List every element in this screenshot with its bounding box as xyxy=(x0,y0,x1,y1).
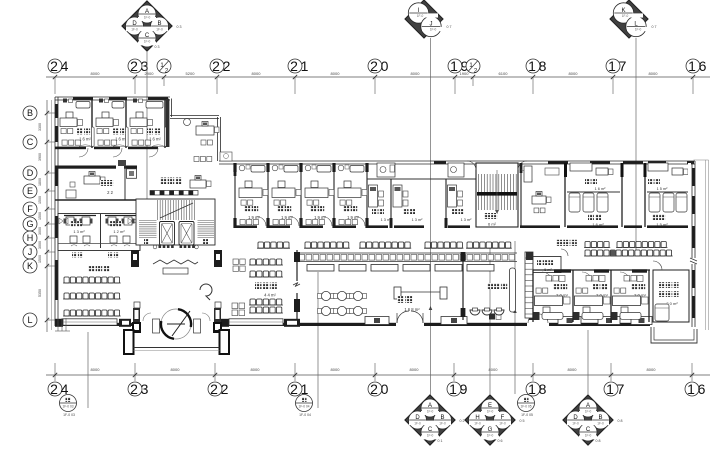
svg-text:1F-0: 1F-0 xyxy=(474,421,481,425)
svg-text:5350: 5350 xyxy=(38,289,42,297)
svg-text:8000: 8000 xyxy=(647,367,657,372)
svg-text:1F-0 04: 1F-0 04 xyxy=(299,413,311,417)
svg-text:3: 3 xyxy=(141,381,149,397)
svg-text:8000: 8000 xyxy=(171,367,181,372)
svg-text:2: 2 xyxy=(130,381,138,397)
svg-text:L: L xyxy=(27,315,32,325)
svg-text:1500: 1500 xyxy=(38,255,42,263)
svg-text:A: A xyxy=(145,9,149,15)
svg-text:1 2 m²: 1 2 m² xyxy=(113,229,125,234)
svg-text:1 6 m²: 1 6 m² xyxy=(149,137,161,142)
svg-text:2: 2 xyxy=(130,58,138,74)
svg-text:4: 4 xyxy=(61,58,69,74)
svg-text:1: 1 xyxy=(450,58,458,74)
svg-text:3900: 3900 xyxy=(38,153,42,161)
svg-text:8000: 8000 xyxy=(331,367,341,372)
svg-text:8000: 8000 xyxy=(649,71,659,76)
svg-text:0: 0 xyxy=(381,58,389,74)
svg-text:1F-0 03: 1F-0 03 xyxy=(63,413,75,417)
svg-text:G: G xyxy=(26,219,33,229)
svg-text:1800: 1800 xyxy=(38,178,42,186)
svg-text:2: 2 xyxy=(370,381,378,397)
svg-text:8000: 8000 xyxy=(252,71,262,76)
svg-text:G: G xyxy=(488,427,493,433)
svg-text:1: 1 xyxy=(449,381,457,397)
svg-text:0 1: 0 1 xyxy=(438,439,443,443)
svg-text:1 5 m²: 1 5 m² xyxy=(657,187,668,191)
svg-text:1F-0 05: 1F-0 05 xyxy=(521,413,533,417)
svg-text:0 5: 0 5 xyxy=(520,419,525,423)
svg-text:1 6 m²: 1 6 m² xyxy=(79,137,91,142)
svg-text:1 3 m²: 1 3 m² xyxy=(73,229,85,234)
svg-text:J: J xyxy=(430,21,433,27)
svg-text:8000: 8000 xyxy=(91,367,101,372)
svg-text:0: 0 xyxy=(381,381,389,397)
svg-text:2: 2 xyxy=(210,381,218,397)
svg-text:8000: 8000 xyxy=(411,71,421,76)
svg-text:2900: 2900 xyxy=(145,71,155,76)
svg-text:B: B xyxy=(440,415,444,421)
svg-text:E: E xyxy=(488,403,492,409)
svg-text:6: 6 xyxy=(699,58,707,74)
svg-text:3000: 3000 xyxy=(38,227,42,235)
svg-text:2: 2 xyxy=(370,58,378,74)
svg-text:D: D xyxy=(415,415,420,421)
svg-text:6100: 6100 xyxy=(499,71,509,76)
svg-text:1F-0: 1F-0 xyxy=(585,433,592,437)
svg-text:2: 2 xyxy=(290,381,298,397)
svg-text:1: 1 xyxy=(528,381,536,397)
svg-text:C: C xyxy=(145,33,150,39)
svg-text:1F-0 04: 1F-0 04 xyxy=(299,405,310,409)
svg-text:0 7: 0 7 xyxy=(652,25,657,29)
svg-text:0 7: 0 7 xyxy=(447,25,452,29)
svg-text:1 6 8 m²: 1 6 8 m² xyxy=(404,307,420,312)
svg-text:1: 1 xyxy=(301,58,309,74)
svg-text:3000: 3000 xyxy=(38,241,42,249)
svg-text:F: F xyxy=(501,415,505,421)
svg-text:8000: 8000 xyxy=(410,367,420,372)
svg-text:1F-0: 1F-0 xyxy=(427,433,434,437)
svg-text:1500: 1500 xyxy=(38,196,42,204)
svg-text:A: A xyxy=(586,403,590,409)
svg-text:8000: 8000 xyxy=(251,367,261,372)
svg-text:4 4 m²: 4 4 m² xyxy=(264,293,276,298)
svg-text:H: H xyxy=(475,415,479,421)
svg-text:6: 6 xyxy=(698,381,706,397)
svg-text:2: 2 xyxy=(290,58,298,74)
svg-text:1F-0: 1F-0 xyxy=(414,421,421,425)
svg-text:2 2: 2 2 xyxy=(107,190,113,195)
svg-text:A: A xyxy=(428,403,432,409)
svg-text:1: 1 xyxy=(687,381,695,397)
svg-text:B: B xyxy=(27,108,33,118)
svg-text:2: 2 xyxy=(50,58,58,74)
svg-text:1: 1 xyxy=(608,58,616,74)
svg-text:1F-0: 1F-0 xyxy=(430,28,437,32)
svg-text:8: 8 xyxy=(539,381,547,397)
svg-text:1F-0: 1F-0 xyxy=(131,27,138,31)
svg-text:1F-0: 1F-0 xyxy=(427,409,434,413)
svg-text:8000: 8000 xyxy=(91,71,101,76)
svg-text:5200: 5200 xyxy=(186,71,196,76)
svg-text:6 m²: 6 m² xyxy=(488,222,497,227)
svg-text:1F-0 05: 1F-0 05 xyxy=(521,405,532,409)
svg-text:8000: 8000 xyxy=(331,71,341,76)
svg-text:B: B xyxy=(598,415,602,421)
svg-text:0 2: 0 2 xyxy=(460,419,465,423)
svg-text:2: 2 xyxy=(50,381,58,397)
svg-text:1: 1 xyxy=(606,381,614,397)
svg-text:0 6: 0 6 xyxy=(498,439,503,443)
svg-text:1F-0 03: 1F-0 03 xyxy=(63,405,74,409)
svg-text:8000: 8000 xyxy=(568,367,578,372)
svg-text:J: J xyxy=(28,247,33,257)
svg-text:1: 1 xyxy=(528,58,536,74)
svg-text:9: 9 xyxy=(460,381,468,397)
svg-text:E: E xyxy=(27,186,33,196)
svg-text:3300: 3300 xyxy=(38,123,42,131)
svg-text:1F-0: 1F-0 xyxy=(499,421,506,425)
svg-text:8000: 8000 xyxy=(569,71,579,76)
svg-text:1 3 m²: 1 3 m² xyxy=(461,218,472,222)
svg-text:2: 2 xyxy=(221,381,229,397)
svg-text:1900: 1900 xyxy=(460,71,470,76)
svg-text:1F-0: 1F-0 xyxy=(156,27,163,31)
svg-text:0 8: 0 8 xyxy=(618,419,623,423)
svg-text:2: 2 xyxy=(212,58,220,74)
svg-text:H: H xyxy=(27,233,34,243)
svg-text:1500: 1500 xyxy=(38,212,42,220)
svg-text:1 6 m²: 1 6 m² xyxy=(595,187,606,191)
svg-text:D: D xyxy=(573,415,578,421)
svg-text:D: D xyxy=(27,168,34,178)
svg-text:D: D xyxy=(132,21,137,27)
svg-text:1 3 m²: 1 3 m² xyxy=(381,218,392,222)
svg-text:1F-0: 1F-0 xyxy=(635,28,642,32)
svg-text:C: C xyxy=(586,427,591,433)
svg-text:C: C xyxy=(27,137,34,147)
svg-text:1F-0: 1F-0 xyxy=(417,14,424,18)
svg-text:1 3 m²: 1 3 m² xyxy=(412,218,423,222)
svg-text:1F-0: 1F-0 xyxy=(144,15,151,19)
svg-text:1F-0: 1F-0 xyxy=(622,14,629,18)
svg-text:1F-0: 1F-0 xyxy=(144,39,151,43)
svg-text:B: B xyxy=(157,21,161,27)
svg-text:8: 8 xyxy=(539,58,547,74)
svg-text:1F-0: 1F-0 xyxy=(439,421,446,425)
svg-text:K: K xyxy=(621,8,625,14)
svg-text:K: K xyxy=(27,261,33,271)
svg-text:F: F xyxy=(27,204,33,214)
svg-text:1F-0: 1F-0 xyxy=(487,409,494,413)
svg-text:7: 7 xyxy=(619,58,627,74)
svg-text:1: 1 xyxy=(688,58,696,74)
svg-text:0 3: 0 3 xyxy=(155,45,160,49)
svg-text:C: C xyxy=(428,427,433,433)
svg-text:1F-0: 1F-0 xyxy=(572,421,579,425)
svg-text:0 8: 0 8 xyxy=(596,439,601,443)
svg-text:7: 7 xyxy=(617,381,625,397)
svg-text:2: 2 xyxy=(223,58,231,74)
svg-text:0 3: 0 3 xyxy=(177,25,182,29)
svg-text:1F-0: 1F-0 xyxy=(585,409,592,413)
svg-text:1F-0: 1F-0 xyxy=(597,421,604,425)
svg-text:1F-0: 1F-0 xyxy=(487,433,494,437)
